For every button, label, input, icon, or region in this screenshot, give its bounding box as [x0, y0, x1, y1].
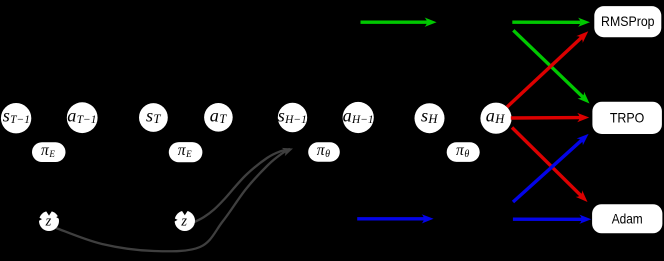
svg-text:Adam: Adam	[612, 210, 643, 226]
svg-text:TRPO: TRPO	[610, 109, 645, 125]
svg-text:RMSProp: RMSProp	[601, 13, 655, 29]
svg-text:z: z	[45, 214, 52, 230]
svg-text:z: z	[180, 213, 187, 229]
